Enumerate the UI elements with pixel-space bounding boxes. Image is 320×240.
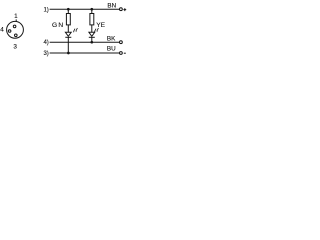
svg-text:3): 3) [43,51,48,57]
svg-text:BU: BU [107,45,116,52]
svg-text:YE: YE [96,22,105,29]
svg-text:3: 3 [13,44,17,51]
svg-text:BN: BN [107,3,116,10]
svg-text:4: 4 [0,27,4,34]
svg-text:BK: BK [107,36,116,43]
svg-text:GN: GN [52,22,64,29]
svg-text:4): 4) [43,40,48,46]
svg-text:1: 1 [14,13,18,20]
svg-text:1): 1) [43,7,48,13]
